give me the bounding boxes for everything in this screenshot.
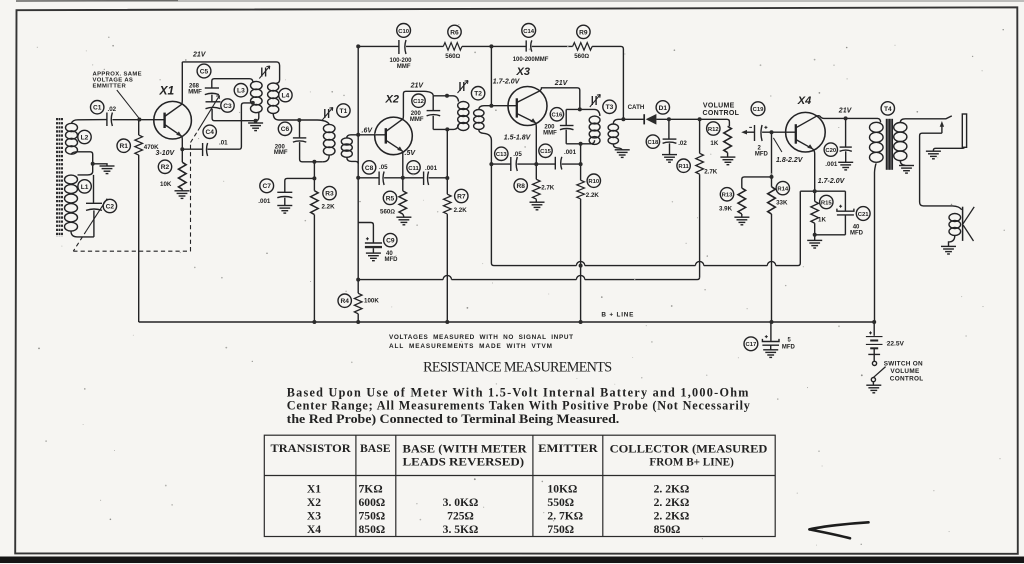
coil L1 — [65, 175, 78, 231]
svg-text:R3: R3 — [325, 191, 334, 198]
svg-text:200: 200 — [544, 125, 555, 131]
coil T3 secondary — [608, 124, 618, 144]
svg-text:C14: C14 — [523, 29, 535, 35]
svg-text:EMMITTER: EMMITTER — [93, 84, 127, 90]
capacitor C1 — [107, 113, 113, 127]
C12 / T2 tank box top — [433, 96, 458, 102]
capacitor C16 — [565, 109, 567, 125]
svg-text:C16: C16 — [551, 113, 563, 119]
value 268 MMF (C5) — [188, 84, 202, 96]
label R9 — [577, 25, 590, 38]
coil L3 — [250, 81, 262, 112]
resistor R2 — [181, 149, 183, 162]
ground at L2 — [93, 164, 107, 166]
label C19 — [751, 102, 765, 116]
wire R14 bottom to B+ bus — [771, 214, 773, 322]
svg-text:C21: C21 — [858, 212, 870, 218]
arrow through C3 — [198, 96, 220, 131]
speaker armature bar and pole lines — [962, 207, 964, 241]
label C4 — [203, 125, 216, 138]
capacitor C15 — [555, 157, 562, 170]
dashed gang line vertical — [190, 143, 192, 252]
svg-text:C13: C13 — [496, 152, 508, 158]
svg-text:CATH: CATH — [628, 104, 645, 111]
svg-text:R9: R9 — [579, 29, 588, 36]
svg-text:TRANSISTOR: TRANSISTOR — [271, 442, 352, 455]
capacitor C9 electrolytic — [365, 237, 382, 248]
svg-text:1.7-2.0V: 1.7-2.0V — [493, 78, 521, 85]
svg-text:B + LINE: B + LINE — [601, 312, 634, 319]
ground at T3 secondary — [615, 150, 630, 158]
wire X2 emitter down — [402, 151, 404, 178]
svg-text:CONTROL: CONTROL — [890, 376, 924, 383]
svg-text:33K: 33K — [776, 199, 788, 206]
svg-text:APPROX. SAME: APPROX. SAME — [93, 71, 142, 77]
hop over R7 vertical — [443, 275, 451, 279]
svg-text:C4: C4 — [205, 129, 214, 136]
label D1 — [656, 101, 669, 114]
svg-text:T3: T3 — [606, 104, 614, 111]
label L1 — [78, 180, 91, 193]
coil T1 primary — [323, 124, 335, 155]
transistor X1 — [154, 101, 192, 139]
svg-text:.05: .05 — [513, 151, 522, 158]
wire feedback line (emitter box to T2 secondary) — [491, 164, 800, 266]
svg-text:R2: R2 — [161, 164, 170, 171]
svg-text:VOLUME: VOLUME — [703, 103, 735, 110]
wire L2 bottom to ground junction — [72, 152, 93, 164]
svg-text:.001: .001 — [425, 165, 438, 172]
label T3 — [603, 100, 616, 113]
transformer T4 secondary coil — [894, 123, 907, 161]
handwritten arrow bottom right — [810, 522, 869, 538]
wire L1 bottom — [71, 231, 94, 237]
wire C8 to C11 — [384, 177, 424, 179]
wire T1 secondary top to X2 base — [347, 135, 386, 138]
svg-text:750Ω: 750Ω — [359, 510, 386, 523]
capacitor C13 — [511, 157, 518, 171]
wiper arrow R12 — [741, 130, 754, 135]
ground under C17 — [763, 350, 778, 358]
svg-text:1K: 1K — [710, 140, 718, 147]
label R6 — [448, 25, 461, 38]
svg-text:MMF: MMF — [397, 64, 411, 70]
svg-text:2. 7KΩ: 2. 7KΩ — [547, 510, 583, 523]
text VOLUME CONTROL — [703, 103, 740, 117]
svg-text:725Ω: 725Ω — [447, 510, 474, 523]
svg-text:X2: X2 — [385, 94, 399, 106]
svg-text:X1: X1 — [307, 483, 321, 496]
capacitor C4 — [203, 143, 208, 156]
svg-text:R12: R12 — [708, 127, 720, 133]
value 200 MMF (C6) — [274, 144, 288, 156]
label R4 — [338, 294, 351, 307]
ground under R8 — [530, 202, 545, 210]
capacitor C2 (tuning) — [93, 175, 95, 203]
label R13 — [720, 188, 733, 201]
svg-text:C11: C11 — [408, 166, 419, 172]
svg-text:L4: L4 — [282, 93, 290, 100]
transformer T4 primary coil — [870, 122, 884, 162]
hop over R10 vertical (lower) — [576, 275, 584, 279]
wire C1 to X1 base — [112, 119, 164, 121]
svg-text:3-10V: 3-10V — [156, 150, 176, 157]
svg-text:21V: 21V — [410, 82, 425, 89]
label T2 — [471, 87, 484, 100]
label C10 — [397, 24, 411, 38]
svg-text:R8: R8 — [516, 183, 525, 190]
svg-text:C1: C1 — [93, 105, 102, 112]
wire tank bottom — [212, 109, 259, 121]
svg-text:850Ω: 850Ω — [654, 523, 681, 536]
capacitor C18 — [668, 119, 670, 139]
svg-text:C12: C12 — [413, 99, 425, 105]
R15 C21 box top — [800, 190, 845, 192]
svg-text:100K: 100K — [364, 298, 379, 305]
svg-text:C19: C19 — [753, 107, 765, 113]
svg-text:C3: C3 — [223, 103, 232, 110]
transistor X3 — [508, 87, 547, 126]
coil L4 — [268, 83, 279, 114]
capacitor C7 — [285, 178, 315, 192]
wire speaker bottom to ground — [949, 236, 955, 247]
wire AGC vertical (C10 line down to R4) — [358, 46, 360, 293]
svg-text:21V: 21V — [192, 52, 207, 59]
resistor R3 — [313, 162, 315, 191]
coil T3 primary — [589, 116, 600, 144]
resistor R1 — [138, 120, 140, 136]
svg-text:C20: C20 — [825, 148, 837, 154]
dashed gang line from C2 — [73, 231, 86, 252]
label R5 — [383, 191, 396, 204]
wire C13 line left — [491, 163, 510, 165]
svg-text:X3: X3 — [516, 66, 530, 78]
wire X4 collector 21V rail to T4 — [817, 116, 881, 123]
svg-text:21V: 21V — [554, 80, 569, 87]
svg-text:MFD: MFD — [782, 344, 796, 350]
switch on volume control — [871, 354, 885, 385]
capacitor C20 — [845, 118, 847, 147]
wire T1 primary bottom — [323, 155, 329, 162]
wire jack contact to speaker — [920, 133, 962, 210]
svg-text:X1: X1 — [159, 84, 175, 98]
svg-text:560Ω: 560Ω — [380, 209, 395, 216]
wire T2 secondary top to X3 base — [479, 106, 492, 110]
wire 21V rail (X1 collector to L4) — [182, 62, 279, 84]
text APPROX. SAME VOLTAGE AS EMMITTER — [93, 71, 142, 89]
resistance table — [264, 435, 775, 536]
svg-text:the Red Probe) Connected to Te: the Red Probe) Connected to Terminal Bei… — [287, 412, 620, 426]
value 40 MFD (C9) — [385, 251, 399, 263]
antenna ferrite bar — [57, 118, 62, 237]
svg-text:C9: C9 — [386, 238, 395, 245]
svg-text:R7: R7 — [457, 193, 466, 200]
svg-text:LEADS REVERSED): LEADS REVERSED) — [403, 456, 525, 469]
svg-text:2.2K: 2.2K — [454, 207, 468, 214]
svg-text:L1: L1 — [81, 184, 89, 191]
label R1 — [117, 139, 130, 152]
svg-text:550Ω: 550Ω — [547, 496, 574, 509]
svg-text:VOLUME: VOLUME — [890, 368, 920, 375]
label R12 — [707, 122, 720, 135]
svg-text:.6V: .6V — [362, 127, 374, 134]
svg-text:.001: .001 — [564, 149, 577, 156]
wire X4 emitter down — [813, 149, 815, 191]
wire diode to volume control — [656, 119, 729, 126]
label C13 — [495, 147, 508, 160]
svg-text:2.7K: 2.7K — [704, 168, 718, 175]
svg-text:R5: R5 — [386, 195, 395, 202]
diode D1 — [644, 114, 656, 125]
svg-text:10K: 10K — [160, 181, 172, 188]
wire T4 secondary top to jack — [900, 116, 952, 123]
hop over R10 vertical — [576, 261, 584, 265]
wire C10 to R6 — [406, 45, 443, 47]
svg-text:2. 2KΩ: 2. 2KΩ — [654, 483, 690, 496]
label R2 — [158, 160, 171, 173]
ground under C9 — [366, 253, 381, 261]
ground at speaker — [941, 246, 956, 254]
wire C8 line left — [358, 177, 379, 179]
capacitor C6 — [299, 120, 301, 138]
svg-text:R6: R6 — [450, 29, 459, 36]
wire L4 bottom to C6 node and T1 — [273, 114, 329, 125]
svg-text:MFD: MFD — [755, 151, 769, 157]
svg-text:3. 0KΩ: 3. 0KΩ — [443, 496, 479, 509]
svg-text:C18: C18 — [647, 140, 659, 146]
label C1 — [91, 101, 104, 114]
svg-text:X4: X4 — [307, 523, 321, 536]
label C7 — [260, 179, 274, 193]
speaker coil — [949, 214, 961, 236]
wire T3 secondary bottom to ground — [613, 144, 622, 150]
svg-text:X2: X2 — [307, 496, 321, 509]
label T4 — [881, 102, 894, 115]
svg-text:BASE: BASE — [360, 442, 391, 455]
svg-text:C8: C8 — [365, 165, 374, 172]
wire R14 vertical (base bias) — [771, 132, 773, 187]
svg-text:750Ω: 750Ω — [547, 523, 574, 536]
label C21 — [856, 207, 870, 221]
ground under R13 — [734, 217, 749, 225]
wire X3 emitter down — [535, 123, 538, 164]
resistor R7 — [444, 194, 452, 214]
capacitor C10 — [399, 40, 406, 54]
svg-text:BASE (WITH METER: BASE (WITH METER — [403, 443, 528, 456]
label C3 — [221, 99, 234, 112]
wire R1 bottom to B+ bus — [138, 155, 140, 322]
svg-text:X3: X3 — [307, 510, 321, 523]
label C5 — [197, 64, 211, 78]
hop over R14 vertical — [767, 261, 775, 265]
label R8 — [514, 179, 527, 192]
svg-text:100-200MMF: 100-200MMF — [513, 57, 549, 63]
battery negative lead and bar — [868, 348, 880, 354]
label C15 — [539, 144, 552, 157]
value 5 MFD (C17) — [782, 338, 796, 351]
wire T4 primary bottom to battery bus — [875, 162, 877, 322]
scan artifact top edge line — [16, 0, 1024, 2]
battery 22.5V — [873, 322, 875, 336]
svg-text:D1: D1 — [659, 105, 668, 112]
resistor R8 — [535, 164, 537, 179]
wire X1 collector up to 21V rail — [181, 62, 184, 104]
svg-text:21V: 21V — [838, 107, 853, 114]
svg-text:CONTROL: CONTROL — [703, 110, 740, 117]
slug adjust T1 — [322, 108, 333, 121]
svg-text:L3: L3 — [237, 88, 245, 95]
svg-text:ALL MEASUREMENTS MADE WITH: ALL MEASUREMENTS MADE WITH VTVM — [389, 343, 553, 350]
svg-text:RESISTANCE MEASUREMENTS: RESISTANCE MEASUREMENTS — [423, 360, 612, 376]
svg-text:T2: T2 — [474, 91, 482, 98]
svg-text:MFD: MFD — [385, 257, 399, 263]
svg-text:VOLTAGE AS: VOLTAGE AS — [93, 77, 134, 83]
wire to diode — [623, 118, 644, 120]
resistor R15 — [814, 191, 816, 201]
svg-text:2.2K: 2.2K — [322, 204, 336, 211]
wire tank box bottom — [433, 124, 458, 129]
wire C13 to C15 — [517, 163, 555, 165]
wire T3 secondary top to diode — [613, 119, 623, 124]
wire X1 emitter down — [181, 136, 184, 149]
wire T1 secondary bottom — [347, 157, 358, 164]
svg-text:MMF: MMF — [543, 131, 557, 137]
label C12 — [412, 94, 425, 107]
wire X3 collector to T3 tank — [539, 88, 580, 110]
ground at T4 secondary — [899, 166, 914, 174]
label C11 — [407, 161, 420, 174]
svg-text:MMF: MMF — [410, 117, 424, 123]
svg-text:C7: C7 — [262, 183, 271, 190]
svg-text:.001: .001 — [258, 198, 271, 205]
svg-text:.01: .01 — [219, 139, 228, 146]
potentiometer R12 — [724, 126, 732, 152]
label T1 — [337, 104, 350, 117]
resistor R11 — [699, 119, 701, 153]
value 200 MMF (C12) — [410, 111, 424, 123]
capacitor C17 electrolytic — [770, 322, 772, 341]
svg-text:2. 2KΩ: 2. 2KΩ — [654, 510, 690, 523]
svg-text:MFD: MFD — [850, 231, 864, 237]
wire C15 to R10 vertical — [562, 163, 581, 165]
svg-text:X4: X4 — [797, 95, 811, 107]
svg-text:R15: R15 — [821, 200, 833, 206]
wire R9 to detector line — [592, 46, 623, 119]
svg-text:R1: R1 — [119, 143, 128, 150]
svg-text:.5V: .5V — [405, 150, 417, 157]
wire C19 to X4 base — [762, 131, 796, 133]
coil T2 primary — [458, 102, 469, 131]
transformer T4 core — [886, 119, 892, 170]
pointer line to base node — [117, 90, 139, 118]
pointer line 1.8-2.2V — [773, 138, 782, 152]
capacitor C8 — [379, 172, 384, 186]
svg-text:R13: R13 — [722, 193, 734, 199]
svg-text:2.7K: 2.7K — [541, 184, 555, 191]
label C14 — [522, 24, 536, 38]
ground under R15 box — [814, 235, 816, 240]
ground at tank — [255, 121, 257, 123]
wire X3 base — [491, 105, 516, 107]
wire R13 branch — [742, 177, 772, 188]
svg-text:C5: C5 — [200, 68, 209, 75]
svg-text:7KΩ: 7KΩ — [359, 483, 383, 496]
label L4 — [279, 88, 292, 101]
label R11 — [677, 159, 690, 172]
capacitor C11 — [424, 172, 429, 186]
value 2 MFD (C19) — [755, 145, 769, 157]
label R15 — [820, 195, 833, 208]
wire T3 tank bottom — [566, 140, 594, 144]
svg-text:.001: .001 — [825, 161, 838, 168]
arrow through C2 — [87, 199, 108, 231]
wire jack sleeve to ground — [933, 147, 964, 151]
coil T1 secondary — [341, 138, 352, 157]
wire down to L1 / C2 — [78, 164, 93, 175]
bottom thick scan bar — [0, 557, 1024, 564]
ground under switch — [866, 385, 881, 393]
svg-text:600Ω: 600Ω — [359, 496, 386, 509]
slug adjust T3 — [590, 95, 601, 108]
label R7 — [455, 189, 468, 202]
svg-text:560Ω: 560Ω — [445, 53, 460, 60]
ground under R2 — [181, 189, 183, 190]
capacitor C12 — [432, 96, 434, 111]
text SWITCH ON VOLUME CONTROL — [884, 361, 924, 383]
resistor R14 — [768, 187, 776, 214]
label R14 — [776, 181, 789, 194]
coil T2 secondary — [474, 110, 484, 130]
svg-text:.02: .02 — [678, 140, 687, 147]
label C16 — [550, 108, 563, 121]
ground under C20 — [838, 162, 853, 170]
label C17 — [744, 337, 758, 351]
svg-text:COLLECTOR (MEASURED: COLLECTOR (MEASURED — [610, 443, 768, 456]
wire top line left — [358, 45, 399, 47]
svg-text:R4: R4 — [340, 298, 349, 305]
svg-text:C17: C17 — [745, 342, 757, 348]
capacitor C21 electrolytic — [844, 191, 846, 211]
slug adjust T2 — [458, 81, 469, 94]
svg-text:L2: L2 — [81, 134, 89, 141]
resistor R5 — [402, 178, 404, 191]
svg-text:C10: C10 — [398, 29, 410, 35]
ground at C7 — [277, 206, 292, 214]
wire X2 collector to tank — [403, 91, 433, 119]
svg-text:MMF: MMF — [274, 150, 288, 156]
svg-text:850Ω: 850Ω — [359, 523, 386, 536]
coil L2 — [66, 123, 78, 154]
resistor R13 — [738, 188, 746, 214]
wire T2 secondary bottom down — [479, 130, 492, 165]
wire box bottom — [815, 234, 846, 236]
ground under R12 — [720, 157, 735, 165]
svg-text:MMF: MMF — [188, 89, 202, 95]
svg-text:VOLTAGES MEASURED WITH NO: VOLTAGES MEASURED WITH NO SIGNAL INPUT — [389, 334, 574, 341]
resistor R9 — [573, 43, 593, 51]
svg-text:560Ω: 560Ω — [574, 53, 589, 60]
wire C11 to R7 junction — [429, 177, 448, 179]
wire C5 to C3 — [211, 95, 213, 102]
resistor R10 — [577, 180, 585, 199]
svg-text:22.5V: 22.5V — [887, 340, 905, 347]
svg-text:Center Range; All Measurements: Center Range; All Measurements Taken Wit… — [287, 399, 750, 413]
svg-text:R11: R11 — [678, 164, 689, 170]
label C20 — [824, 143, 837, 156]
dashed gang line bottom — [73, 250, 190, 252]
wire C14 to R9 — [532, 45, 573, 47]
svg-text:2. 2KΩ: 2. 2KΩ — [654, 496, 690, 509]
